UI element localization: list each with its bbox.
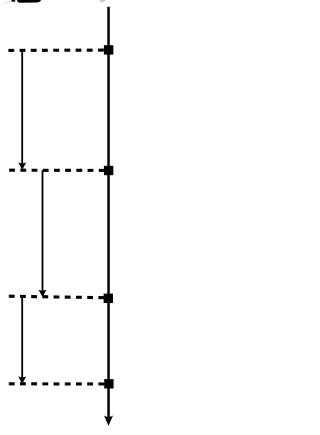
arrow A3 shaft	[21, 297, 23, 378]
message line M2 (dashed)	[9, 169, 105, 172]
arrow A2 head	[39, 290, 47, 298]
clipped shape top-left (bottom of box cut by image edge)	[3, 0, 41, 4]
lifeline arrowhead (bottom)	[104, 416, 113, 426]
arrow A2 shaft	[42, 170, 44, 292]
arrow A1 shaft	[21, 50, 23, 164]
message line M4 (dashed)	[9, 382, 105, 385]
node square N2	[104, 166, 113, 175]
clipped gray mark top (near lifeline)	[100, 0, 106, 2]
message line M1 (dashed)	[8, 49, 105, 52]
node square N4	[104, 379, 113, 388]
lifeline shaft	[107, 7, 110, 419]
node square N3	[104, 294, 113, 303]
arrow A1 head	[18, 162, 26, 170]
arrow A3 head	[18, 376, 26, 384]
node square N1	[104, 45, 113, 54]
message line M3 (dashed)	[9, 296, 105, 298]
